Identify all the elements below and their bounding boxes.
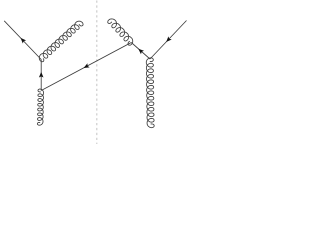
wire: fermion line from vertex A to upper-left (4, 21, 41, 60)
cut line (final-state cut, dashed) (96, 1, 98, 145)
arrow on C-D fermion (pointing up-left) (138, 49, 144, 54)
gluon coil at vertex C (up-left) (108, 19, 133, 45)
gluon coil at vertex A (up-right) (39, 21, 83, 62)
Feynman cut diagram (0, 0, 191, 144)
arrow on A-B fermion (pointing up) (39, 72, 44, 78)
gluon coil at vertex B (downward) (37, 89, 43, 125)
wire: fermion line vertex C to vertex D (131, 43, 150, 60)
wire: fermion line vertex D to upper-right (150, 21, 187, 60)
arrow on upper-right fermion (pointing down-left) (166, 36, 172, 42)
wire: fermion line vertex A to vertex B (vertical) (40, 60, 42, 91)
arrow on upper-left fermion (pointing up-left) (21, 38, 27, 44)
gluon coil at vertex D (downward) (146, 58, 154, 128)
wire: fermion line vertex B to vertex C (crosses cut) (41, 43, 131, 91)
arrow on B-C fermion (pointing down-left) (84, 63, 90, 68)
